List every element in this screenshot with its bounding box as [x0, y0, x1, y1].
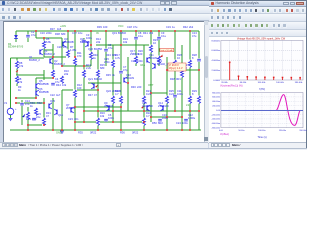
wire — [62, 65, 91, 67]
svg-text:22u: 22u — [36, 115, 41, 119]
svg-text:100n: 100n — [137, 59, 143, 63]
wire — [150, 116, 182, 118]
junction — [150, 92, 152, 94]
main title bar — [0, 0, 307, 6]
junction — [27, 129, 29, 131]
junction — [83, 110, 85, 112]
HDA bottom tabs — [209, 142, 306, 148]
junction — [74, 121, 76, 123]
svg-text:R47: R47 — [88, 93, 93, 97]
HDA toolbar 4 (zoom) — [209, 30, 306, 37]
wire — [10, 58, 12, 108]
svg-text:R41: R41 — [143, 31, 148, 35]
junction — [67, 30, 69, 32]
junction — [83, 121, 85, 123]
wire — [135, 31, 137, 66]
svg-text:10k: 10k — [123, 40, 128, 44]
res R32 — [34, 108, 38, 116]
svg-text:2SB649: 2SB649 — [130, 52, 140, 56]
HDA toolbar 1 — [209, 7, 306, 14]
wire — [27, 107, 29, 130]
svg-text:50.00u: 50.00u — [238, 130, 244, 132]
blue center trace — [221, 110, 303, 112]
svg-text:100.00u: 100.00u — [258, 130, 265, 132]
junction — [198, 69, 200, 71]
wire — [97, 50, 99, 130]
svg-text:R32: R32 — [37, 101, 42, 105]
wire — [43, 70, 45, 80]
junction — [15, 97, 17, 99]
svg-text:2.2k: 2.2k — [86, 66, 92, 70]
wire — [120, 31, 122, 130]
npn Q14 — [162, 106, 164, 111]
res R20 — [134, 56, 138, 64]
junction — [83, 65, 85, 67]
svg-text:Q19: Q19 — [112, 31, 117, 35]
res R26 — [173, 60, 177, 68]
junction — [74, 106, 76, 108]
svg-text:Time (s): Time (s) — [257, 136, 266, 139]
svg-text:47u: 47u — [108, 46, 113, 50]
wire — [90, 31, 92, 66]
res R28 — [188, 60, 192, 68]
wire — [52, 44, 54, 78]
res R23 — [149, 45, 153, 53]
svg-text:f (Hz): f (Hz) — [259, 88, 265, 91]
npn Q12 — [146, 106, 148, 111]
res R33 — [26, 112, 30, 120]
svg-text:BC856: BC856 — [94, 47, 102, 51]
svg-text:0.22: 0.22 — [169, 92, 175, 96]
wire — [36, 37, 62, 39]
probe arrow — [22, 114, 25, 117]
wire — [43, 98, 45, 125]
npn Q15 — [48, 104, 50, 109]
svg-text:100u: 100u — [108, 116, 114, 120]
cap C12 — [184, 118, 188, 121]
svg-text:2k2: 2k2 — [189, 25, 194, 29]
wire — [44, 56, 68, 58]
junction — [52, 129, 54, 131]
svg-text:470: 470 — [77, 54, 82, 58]
svg-text:R35: R35 — [78, 131, 83, 135]
main toolbar row 1 — [0, 6, 307, 14]
wire — [67, 31, 69, 57]
junction — [166, 129, 168, 131]
svg-text:0.00: 0.00 — [216, 110, 221, 112]
wire — [166, 57, 168, 130]
res R30 — [197, 96, 201, 104]
svg-text:10n: 10n — [74, 117, 79, 121]
svg-text:R42: R42 — [183, 25, 188, 29]
svg-text:680: 680 — [112, 53, 117, 57]
svg-text:220: 220 — [32, 117, 37, 121]
npn Q9 — [108, 106, 110, 111]
junction — [97, 110, 99, 112]
junction — [189, 129, 191, 131]
cap C6 — [104, 118, 108, 121]
res R16 — [96, 118, 100, 126]
junction — [120, 129, 122, 131]
harmonic stems — [229, 63, 231, 80]
wire — [150, 31, 152, 122]
svg-text:R36: R36 — [120, 131, 125, 135]
svg-text:R38: R38 — [55, 32, 60, 36]
probe arrow red3 — [141, 106, 144, 109]
svg-text:0R1: 0R1 — [176, 77, 181, 81]
junction — [90, 44, 92, 46]
wire — [84, 110, 198, 112]
diode D1 — [14, 35, 18, 38]
svg-text:47u: 47u — [133, 25, 138, 29]
wire — [127, 57, 129, 111]
npn Q7 — [70, 108, 72, 113]
res R21 — [142, 96, 146, 104]
svg-text:C19: C19 — [166, 25, 171, 29]
junction — [35, 30, 37, 32]
svg-text:R43: R43 — [106, 53, 111, 57]
svg-text:47k: 47k — [19, 64, 24, 68]
svg-text:1000u: 1000u — [188, 116, 196, 120]
svg-text:200.00m: 200.00m — [212, 106, 220, 108]
res R31 — [42, 118, 46, 126]
HDA toolbar 2 — [209, 14, 306, 22]
svg-text:100n: 100n — [177, 92, 183, 96]
svg-text:47k: 47k — [18, 80, 23, 84]
svg-text:680: 680 — [61, 32, 66, 36]
svg-text:3k3: 3k3 — [149, 31, 154, 35]
wire — [61, 38, 63, 66]
svg-text:C18: C18 — [127, 25, 132, 29]
svg-text:1.35k: 1.35k — [70, 48, 77, 52]
wire — [74, 31, 76, 130]
svg-text:C22: C22 — [50, 93, 55, 97]
cap C3 — [82, 39, 86, 42]
wire — [150, 92, 167, 94]
junction — [158, 30, 160, 32]
wire — [83, 38, 85, 122]
svg-text:R50: R50 — [152, 121, 157, 125]
svg-text:-400.00m: -400.00m — [212, 119, 221, 121]
npn Q8 — [93, 84, 95, 89]
junction — [120, 106, 122, 108]
svg-text:47p: 47p — [123, 68, 128, 72]
svg-text:220: 220 — [137, 85, 142, 89]
cap C5 — [104, 48, 108, 51]
wire — [21, 100, 23, 125]
svg-text:BD140_1: BD140_1 — [157, 62, 168, 66]
junction — [143, 129, 145, 131]
wire — [96, 44, 151, 46]
svg-text:47: 47 — [94, 93, 97, 97]
bottom rail — [10, 129, 201, 131]
junction — [198, 110, 200, 112]
probe text V — [168, 63, 186, 71]
svg-text:Q16: Q16 — [58, 113, 63, 117]
svg-text:1k: 1k — [112, 73, 115, 77]
junction — [143, 110, 145, 112]
npn Q5 — [35, 84, 37, 89]
svg-text:Q20: Q20 — [88, 47, 93, 51]
svg-text:R46: R46 — [131, 85, 136, 89]
junction — [143, 121, 145, 123]
junction — [74, 129, 76, 131]
svg-text:600.00m: 600.00m — [212, 97, 220, 99]
junction — [189, 110, 191, 112]
res R12 — [73, 90, 77, 98]
wire — [75, 121, 144, 123]
svg-text:100: 100 — [77, 86, 82, 90]
svg-text:2SC5200: 2SC5200 — [142, 104, 153, 108]
wire — [28, 124, 44, 126]
svg-text:R45: R45 — [106, 73, 111, 77]
junction — [174, 110, 176, 112]
junction — [74, 30, 76, 32]
HDA window frame — [209, 0, 308, 148]
svg-text:400.00m: 400.00m — [212, 101, 220, 103]
junction — [35, 97, 37, 99]
svg-text:150.00u: 150.00u — [279, 130, 286, 132]
junction — [43, 124, 45, 126]
svg-text:OUT: OUT — [148, 83, 154, 87]
res R15 — [96, 70, 100, 78]
svg-text:22k: 22k — [64, 72, 69, 76]
wire — [44, 49, 53, 51]
svg-text:800.00m: 800.00m — [212, 92, 220, 94]
junction — [112, 110, 114, 112]
wire — [62, 89, 98, 91]
svg-text:47u: 47u — [31, 33, 36, 37]
npn Q10 — [123, 78, 125, 83]
svg-text:BC856B: BC856B — [39, 82, 49, 86]
cap C11 — [173, 94, 177, 97]
res R11 — [73, 58, 77, 66]
res R14 — [89, 52, 93, 60]
probe arrow red — [16, 70, 19, 73]
junction — [120, 44, 122, 46]
svg-text:8.0000m: 8.0000m — [211, 40, 220, 42]
svg-text:6.0000m: 6.0000m — [211, 50, 220, 52]
cap C4 — [51, 82, 55, 85]
svg-text:R37: R37 — [50, 27, 55, 31]
cap C14 — [20, 102, 24, 105]
wire — [11, 57, 45, 59]
wire — [143, 45, 145, 130]
svg-text:Vintage Mod AB-25V_05% spark_1: Vintage Mod AB-25V_05% spark_1kHz CW — [237, 37, 286, 40]
wire — [16, 102, 44, 104]
npn Q6 — [35, 91, 37, 96]
svg-text:0R22: 0R22 — [90, 131, 97, 135]
junction — [135, 30, 137, 32]
res R29 — [188, 96, 192, 104]
svg-text:BC846_2: BC846_2 — [44, 52, 55, 56]
npn Q11 — [146, 58, 148, 63]
probe Iout box — [160, 48, 174, 51]
svg-text:Q15: Q15 — [50, 99, 55, 103]
svg-text:LS: LS — [186, 103, 189, 107]
ground — [9, 118, 13, 120]
wire — [35, 78, 37, 98]
npn Q1 — [39, 50, 41, 55]
probe flag — [160, 55, 163, 58]
svg-text:1u: 1u — [172, 25, 175, 29]
svg-text:0.0000: 0.0000 — [213, 80, 220, 82]
top power rail — [16, 30, 199, 32]
svg-text:100n: 100n — [162, 116, 168, 120]
main toolbar row 2 — [0, 14, 307, 21]
svg-text:140.00k: 140.00k — [276, 82, 285, 84]
res R22 — [142, 118, 146, 126]
wire — [174, 31, 176, 111]
schematic canvas — [3, 21, 206, 144]
junction — [97, 129, 99, 131]
cap C2 — [26, 34, 30, 37]
npn Q2 — [49, 59, 51, 64]
wire — [181, 45, 183, 130]
wire — [189, 31, 191, 130]
wire — [158, 31, 160, 66]
svg-text:BD139: BD139 — [126, 76, 134, 80]
svg-text:Q21: Q21 — [88, 77, 93, 81]
cap C7 — [119, 70, 123, 73]
junction — [43, 37, 45, 39]
svg-text:V(p-p): 1.4 V: V(p-p): 1.4 V — [169, 67, 183, 70]
wire — [171, 69, 199, 71]
svg-text:2N5551: 2N5551 — [66, 106, 76, 110]
svg-text:+: + — [15, 108, 17, 111]
lower plot box — [221, 93, 303, 128]
res R27 — [180, 70, 184, 78]
svg-text:220n: 220n — [104, 60, 110, 64]
npn Q13 — [154, 64, 156, 69]
svg-text:0.22: 0.22 — [146, 92, 152, 96]
sheet tab strip — [0, 142, 208, 149]
svg-text:2N5401: 2N5401 — [112, 89, 122, 93]
junction — [112, 121, 114, 123]
svg-text:VCC: VCC — [118, 24, 124, 28]
junction — [181, 116, 183, 118]
svg-text:6.8k: 6.8k — [46, 40, 52, 44]
svg-text:BC846: BC846 — [118, 31, 126, 35]
wire — [112, 45, 114, 122]
svg-text:V(offset): V(offset) — [220, 133, 229, 136]
wire — [43, 38, 45, 57]
junction — [150, 116, 152, 118]
wire — [16, 97, 36, 99]
svg-text:R49: R49 — [26, 117, 31, 121]
svg-text:Q22: Q22 — [106, 89, 111, 93]
wire — [16, 74, 44, 76]
svg-text:VAS: VAS — [140, 63, 145, 67]
svg-text:100.00k: 100.00k — [258, 82, 267, 84]
wire — [88, 82, 121, 84]
canvas v-scrollbar — [204, 21, 211, 144]
res R18 — [111, 96, 115, 104]
cap C10 — [158, 118, 162, 121]
junction — [181, 129, 183, 131]
junction — [127, 82, 129, 84]
HDA toolbar 3 (green icons) — [209, 22, 306, 30]
cap C13 — [197, 58, 201, 61]
svg-text:0.1u: 0.1u — [161, 34, 167, 38]
svg-text:22p: 22p — [63, 45, 68, 49]
svg-text:10u: 10u — [78, 31, 83, 35]
probe arrow red2 — [95, 85, 98, 88]
svg-text:C21: C21 — [131, 59, 136, 63]
svg-text:C16: C16 — [40, 31, 45, 35]
svg-text:BZX84-B7V5: BZX84-B7V5 — [8, 45, 24, 49]
svg-text:BC846B: BC846B — [80, 40, 90, 44]
svg-text:4.0000m: 4.0000m — [211, 60, 220, 62]
npn Q3 — [62, 42, 64, 47]
junction — [97, 89, 99, 91]
junction — [120, 30, 122, 32]
svg-text:GND: GND — [56, 131, 62, 135]
svg-text:BC846_2: BC846_2 — [29, 58, 40, 62]
cap C9 — [157, 36, 161, 39]
source V1 — [7, 108, 14, 115]
junction — [150, 30, 152, 32]
svg-text:Iout = 10 mA: Iout = 10 mA — [161, 49, 173, 52]
svg-text:BC846_2: BC846_2 — [54, 62, 65, 66]
wire — [27, 31, 29, 42]
status bar — [0, 148, 307, 151]
junction — [52, 56, 54, 58]
junction — [61, 65, 63, 67]
wire — [36, 77, 53, 79]
junction — [15, 102, 17, 104]
svg-text:0.00: 0.00 — [219, 130, 224, 132]
svg-text:2SA1943: 2SA1943 — [158, 104, 169, 108]
svg-text:10k: 10k — [100, 114, 105, 118]
svg-text:200.00u: 200.00u — [299, 130, 306, 132]
svg-text:0R22: 0R22 — [132, 131, 139, 135]
svg-text:-600.00m: -600.00m — [212, 123, 221, 125]
junction — [61, 129, 63, 131]
res R24 — [157, 56, 161, 64]
svg-text:2.0000m: 2.0000m — [211, 70, 220, 72]
junction — [90, 30, 92, 32]
HDA title bar — [209, 1, 306, 7]
npn Q4 — [87, 42, 89, 47]
svg-text:V1: V1 — [4, 101, 8, 105]
svg-text:100u: 100u — [182, 121, 188, 125]
svg-text:C17: C17 — [72, 31, 77, 35]
svg-text:-200.00m: -200.00m — [212, 114, 221, 116]
wire — [15, 31, 17, 42]
magenta sine burst — [221, 95, 303, 126]
svg-text:2N5401: 2N5401 — [104, 104, 114, 108]
junction — [189, 30, 191, 32]
svg-text:22k: 22k — [96, 40, 101, 44]
svg-text:IN: IN — [96, 31, 99, 35]
wire — [52, 98, 54, 130]
svg-text:8R2: 8R2 — [158, 121, 163, 125]
junction — [52, 77, 54, 79]
junction — [74, 56, 76, 58]
svg-text:BD140: BD140 — [94, 77, 102, 81]
junction — [166, 69, 168, 71]
res R13 — [82, 70, 86, 78]
res R17 — [111, 60, 115, 68]
wire — [35, 31, 37, 38]
npn Q16 — [56, 110, 58, 115]
HDA client area — [209, 37, 306, 142]
svg-text:100: 100 — [103, 25, 108, 29]
svg-text:BC846B: BC846B — [64, 40, 74, 44]
wire — [198, 31, 200, 130]
svg-text:220n: 220n — [46, 31, 52, 35]
